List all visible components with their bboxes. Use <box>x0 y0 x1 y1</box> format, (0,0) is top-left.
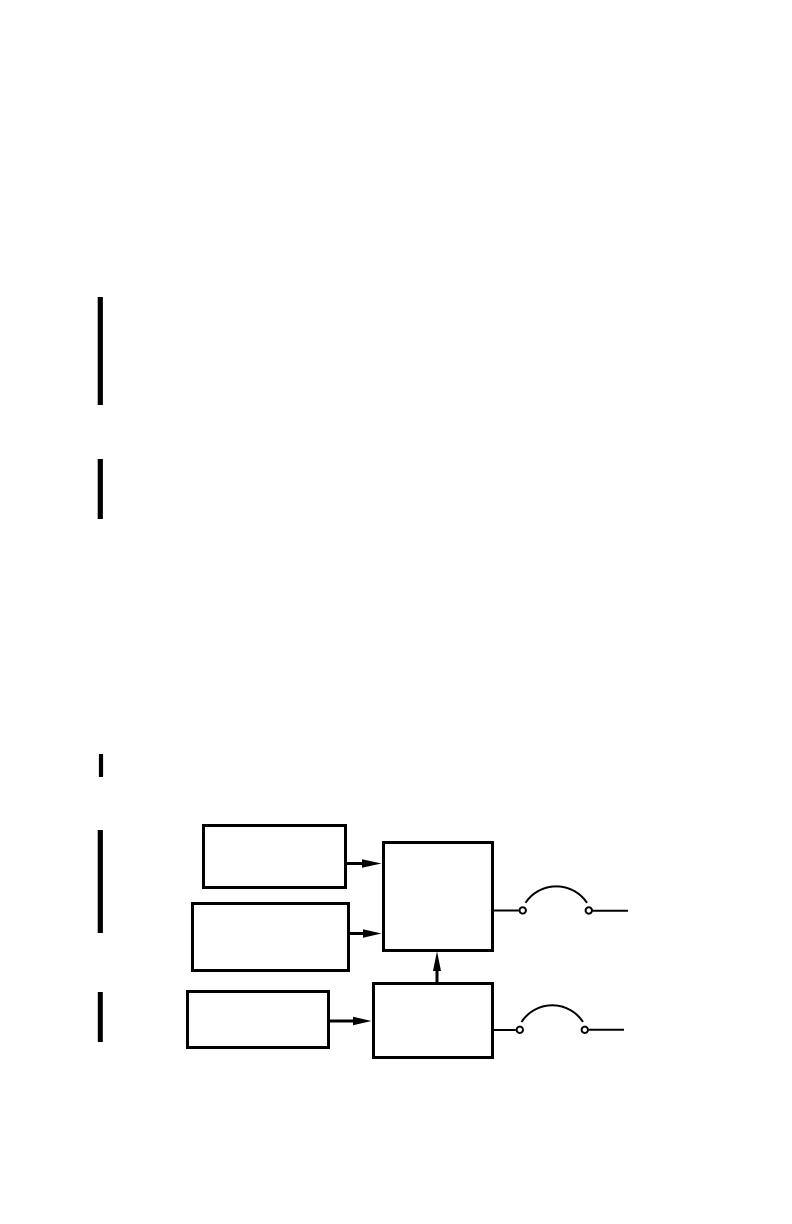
block box 5 (bottom right) <box>374 984 493 1058</box>
switch arc <box>526 886 588 902</box>
block box 4 (large, top right) <box>384 843 493 951</box>
block box 2 (middle left) <box>193 904 349 971</box>
contact circle left <box>520 907 526 913</box>
wire contact to right <box>593 910 628 912</box>
contact circle left <box>517 1027 523 1033</box>
wire contact to right <box>589 1029 624 1031</box>
contact circle right <box>582 1027 588 1033</box>
arrow box2 to box4 <box>350 929 382 938</box>
change bar 4 <box>98 830 103 933</box>
block box 1 (top left) <box>204 826 346 888</box>
wire box5 to contact <box>494 1029 516 1031</box>
switch S2 (from box5 right) <box>494 1005 624 1033</box>
switch arc <box>522 1005 584 1022</box>
contact circle right <box>586 907 592 913</box>
switch S1 (from box4 right) <box>494 886 628 913</box>
change bar 5 <box>98 992 103 1042</box>
arrow box1 to box4 <box>347 859 382 868</box>
wire box4 to contact <box>494 910 519 912</box>
change bar 1 <box>98 297 103 405</box>
arrow box3 to box5 <box>330 1017 372 1026</box>
change bar 3 <box>99 754 103 777</box>
block box 3 (bottom left) <box>188 992 329 1048</box>
change bar 2 <box>98 459 103 519</box>
arrow box5 to box4 (up) <box>433 951 441 985</box>
